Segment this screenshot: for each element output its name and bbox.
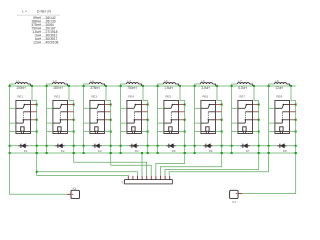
svg-text:375nH: 375nH [90,86,100,90]
pin: RE6 right contact/coil pins [216,105,222,132]
svg-text:K2: K2 [73,186,77,190]
diode D4 [129,144,139,153]
pin: RE2 left pins [47,108,53,131]
pin: RE1 left pins [10,108,16,131]
svg-text:D8: D8 [283,149,287,153]
diode D6 [203,144,213,153]
svg-text:D5: D5 [172,149,176,153]
svg-text:L5: L5 [164,79,168,83]
wire: cell 8 right vertical [291,86,297,154]
pin: RE4 left pins [121,108,127,131]
pin: RE8 right contact/coil pins [290,105,296,132]
svg-text:D2: D2 [61,149,65,153]
wire: cell 6 left vertical [194,84,201,154]
pin: RE2 right contact/coil pins [68,105,74,132]
pin: RE7 left pins [232,108,238,131]
relay RE1 [16,95,31,134]
wire: cell 5 left vertical [157,84,164,154]
diode D2 [55,144,65,153]
svg-text:RE5: RE5 [165,95,171,99]
wire: relay drive net 8 to connector [169,152,269,176]
wire: cell 7 right vertical [254,86,260,154]
diode D3 [92,144,102,153]
svg-text:L2: L2 [53,79,57,83]
svg-text:3.0uH: 3.0uH [201,86,210,90]
relay RE7 [238,95,253,134]
svg-text:1.5uH: 1.5uH [164,86,173,90]
wire: cell 2 left vertical [46,84,53,154]
inductor L8 12uH [274,79,292,90]
svg-text:D6: D6 [209,149,213,153]
inductor L3 375nH [89,79,107,90]
wire: relay drive net 4 to connector [141,152,143,176]
wire: cell 2 right vertical [69,86,75,154]
svg-text:D-Nel | N: D-Nel | N [37,9,51,13]
svg-text:12uH: 12uH [275,86,283,90]
svg-text:RE1: RE1 [17,95,23,99]
diode D8 [277,144,287,153]
wire: cell 3 left vertical [83,84,90,154]
inductor L2 187nH [52,79,70,90]
connector K1 [230,190,243,204]
wire: relay drive net 3 to connector [110,152,152,176]
pin: RE5 left pins [158,108,164,131]
relay RE8 [275,95,290,134]
svg-text:RE4: RE4 [128,95,134,99]
relay RE6 [201,95,216,134]
wire: cell 8 left vertical [268,84,275,154]
svg-text:RE3: RE3 [91,95,97,99]
pin: RE3 left pins [84,108,90,131]
svg-text:40/3/108: 40/3/108 [46,41,59,45]
diode D5 [166,144,176,153]
wire: diode/coil net rail [10,145,296,147]
relay RE3 [90,95,105,134]
svg-text:RE2: RE2 [54,95,60,99]
svg-text:100nH: 100nH [16,86,26,90]
svg-text:L +: L + [22,9,27,13]
pin: RE1 right contact/coil pins [31,105,37,132]
svg-text:L1: L1 [16,79,20,83]
wire: bus output to K1 [242,152,297,194]
relay RE4 [127,95,142,134]
wire: cell 5 right vertical [180,86,186,154]
wire: relay drive net 7 to connector [165,152,260,176]
svg-text:K1: K1 [232,200,236,204]
pin: RE6 left pins [195,108,201,131]
inductor L6 3.0uH [200,79,218,90]
svg-text:RE7: RE7 [239,95,245,99]
wire: cell 4 left vertical [120,84,127,154]
relay RE5 [164,95,179,134]
svg-text:D4: D4 [135,149,139,153]
wire: cell 1 left vertical [9,84,16,154]
connector X1 pin header [121,176,173,184]
wire: drive net 1 to connector pins [36,152,138,176]
svg-text:187nH: 187nH [53,86,63,90]
inductor L7 6.0uH [237,79,255,90]
wire: main signal bus [10,85,296,87]
diode D1 [18,144,28,153]
svg-text:L7: L7 [238,79,242,83]
pin: RE4 right contact/coil pins [142,105,148,132]
wire: cell 3 right vertical [106,86,112,154]
diode D7 [240,144,250,153]
wire: relay drive net 2 to connector [73,152,147,176]
svg-text:RE6: RE6 [202,95,208,99]
pin: RE7 right contact/coil pins [253,105,259,132]
svg-text:12uH: 12uH [33,41,42,45]
pin: RE3 right contact/coil pins [105,105,111,132]
relay RE2 [53,95,68,134]
inductor L4 750nH [126,79,144,90]
wire: relay drive net 6 to connector [160,152,222,176]
svg-text:RE8: RE8 [276,95,282,99]
svg-text:750nH: 750nH [127,86,137,90]
pin: RE5 right contact/coil pins [179,105,185,132]
wire: cell 7 left vertical [231,84,238,154]
svg-text:D3: D3 [98,149,102,153]
svg-text:D7: D7 [246,149,250,153]
wire: cell 6 right vertical [217,86,223,154]
wire: bus input to K2 [10,153,67,194]
wire: relay drive net 5 to connector [156,152,186,176]
wire: cell 4 right vertical [143,86,149,154]
svg-text:6.0uH: 6.0uH [238,86,247,90]
pin: RE8 left pins [269,108,275,131]
wire: cell 1 right vertical [32,86,38,154]
table: inductance annotation list [17,9,60,44]
svg-text:L6: L6 [201,79,205,83]
connector K2 [67,186,80,198]
wire: coil common rail [10,152,296,154]
svg-text:L3: L3 [90,79,94,83]
inductor L1 100nH [15,79,33,90]
inductor L5 1.5uH [163,79,181,90]
svg-text:L8: L8 [275,79,279,83]
svg-text:L4: L4 [127,79,131,83]
svg-text:D1: D1 [24,149,28,153]
svg-text:X1: X1 [121,180,125,184]
